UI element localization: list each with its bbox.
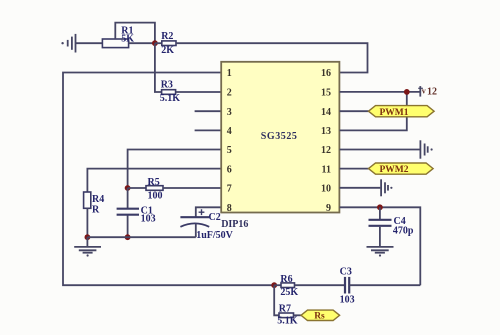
- svg-text:15: 15: [321, 88, 331, 99]
- wire node to R5: [128, 187, 146, 189]
- svg-text:103: 103: [340, 294, 355, 305]
- svg-text:R3: R3: [161, 79, 173, 90]
- wire R1 wiper loop: [115, 23, 155, 44]
- svg-text:SG3525: SG3525: [261, 131, 298, 142]
- svg-text:C2: C2: [209, 212, 221, 223]
- wire R7 to Rs: [294, 314, 302, 316]
- svg-text:7: 7: [227, 183, 232, 194]
- wire node down to R3: [155, 43, 162, 92]
- svg-text:C3: C3: [340, 267, 352, 278]
- node junction R4/ground: [85, 234, 91, 240]
- wire C3 to right rail: [349, 284, 420, 286]
- wire pin 1 left loop to bottom rail: [63, 73, 274, 286]
- port PWM2: [369, 163, 434, 175]
- svg-text:103: 103: [141, 214, 156, 225]
- svg-text:R6: R6: [280, 274, 292, 285]
- node junction C4: [377, 204, 383, 210]
- svg-text:8: 8: [227, 203, 232, 214]
- wire pin 15 to +12: [340, 91, 420, 93]
- svg-text:2: 2: [227, 88, 232, 99]
- ground (pin 10): [381, 179, 392, 196]
- svg-text:R7: R7: [279, 304, 291, 315]
- resistor R7: [277, 304, 298, 327]
- svg-text:3: 3: [227, 107, 232, 118]
- wire R4 to ground rail: [86, 208, 88, 237]
- svg-text:4: 4: [227, 126, 232, 137]
- svg-text:PWM2: PWM2: [380, 165, 409, 175]
- ground (power ground, left of R1): [61, 34, 75, 53]
- wire pin 9 to right rail: [340, 207, 421, 285]
- svg-text:5: 5: [227, 145, 232, 156]
- svg-text:16: 16: [321, 68, 331, 79]
- resistor R5: [146, 177, 163, 202]
- svg-text:2K: 2K: [161, 45, 174, 56]
- svg-text:10: 10: [321, 183, 331, 194]
- wire R1 right terminal to node: [129, 42, 155, 44]
- wire ground rail to C2: [87, 236, 195, 238]
- svg-text:DIP16: DIP16: [221, 219, 248, 230]
- wire node to R2: [155, 42, 162, 44]
- node junction R6/R7: [271, 282, 277, 288]
- svg-text:12: 12: [427, 86, 437, 97]
- wire node down to R7: [274, 285, 279, 315]
- ground (earth, below C4): [367, 247, 394, 257]
- wire pin 11 to PWM2: [340, 168, 369, 170]
- svg-text:R4: R4: [92, 194, 104, 205]
- wire pin 14 to PWM1: [340, 110, 369, 112]
- svg-text:Rs: Rs: [314, 312, 325, 322]
- svg-text:5.1K: 5.1K: [277, 316, 298, 327]
- svg-text:R2: R2: [161, 31, 173, 42]
- port PWM1: [369, 106, 435, 118]
- svg-text:1: 1: [227, 68, 232, 79]
- capacitor C2 (polarized): [180, 209, 233, 241]
- node junction pin15: [404, 89, 410, 95]
- power +v12: [418, 86, 437, 97]
- capacitor C1: [117, 188, 156, 237]
- svg-text:1uF/50V: 1uF/50V: [196, 230, 233, 241]
- node junction C1/rail: [125, 234, 131, 240]
- wire pin 15 node down to pin 13: [340, 92, 407, 130]
- wire pin 6 to R4: [87, 169, 222, 192]
- svg-text:6: 6: [227, 164, 232, 175]
- wire R6 to C3: [295, 284, 345, 286]
- svg-text:470p: 470p: [393, 226, 414, 237]
- svg-text:R5: R5: [148, 177, 160, 188]
- svg-text:v: v: [422, 87, 426, 96]
- svg-text:11: 11: [322, 164, 331, 175]
- resistor R4: [84, 192, 105, 215]
- wire pin 5 to C1/R5 node: [128, 150, 222, 189]
- svg-text:PWM1: PWM1: [380, 108, 409, 118]
- ground (pin 12): [420, 140, 432, 158]
- IC U1 SG3525 DIP16: [195, 62, 340, 230]
- svg-text:5.1K: 5.1K: [160, 93, 181, 104]
- wire pin 8 down to C2: [196, 207, 222, 216]
- ground (earth, below R4): [74, 237, 101, 256]
- resistor R6: [280, 274, 298, 298]
- svg-text:R: R: [92, 204, 100, 215]
- resistor R3: [160, 79, 181, 104]
- svg-text:100: 100: [148, 191, 163, 202]
- svg-text:25K: 25K: [280, 287, 298, 298]
- resistor R2: [161, 31, 176, 56]
- capacitor C3: [340, 267, 355, 306]
- svg-text:13: 13: [321, 126, 331, 137]
- wire ground to R1: [76, 42, 103, 44]
- node junction R5/C1: [125, 185, 131, 191]
- svg-text:12: 12: [321, 145, 331, 156]
- wire pin 12 to ground: [340, 149, 420, 151]
- wire pin 10 to ground: [340, 187, 381, 189]
- wire R2 to pin 16: [176, 43, 368, 72]
- svg-text:14: 14: [321, 107, 331, 118]
- port Rs: [301, 310, 340, 322]
- capacitor C4: [369, 207, 414, 247]
- wire R5 to pin 7: [163, 187, 222, 189]
- resistor R1 (potentiometer body): [102, 26, 134, 48]
- wire node to R6: [274, 284, 281, 286]
- wire R3 to pin 2: [176, 91, 222, 93]
- node junction R1/R2/R3: [152, 40, 158, 46]
- svg-text:9: 9: [326, 203, 331, 214]
